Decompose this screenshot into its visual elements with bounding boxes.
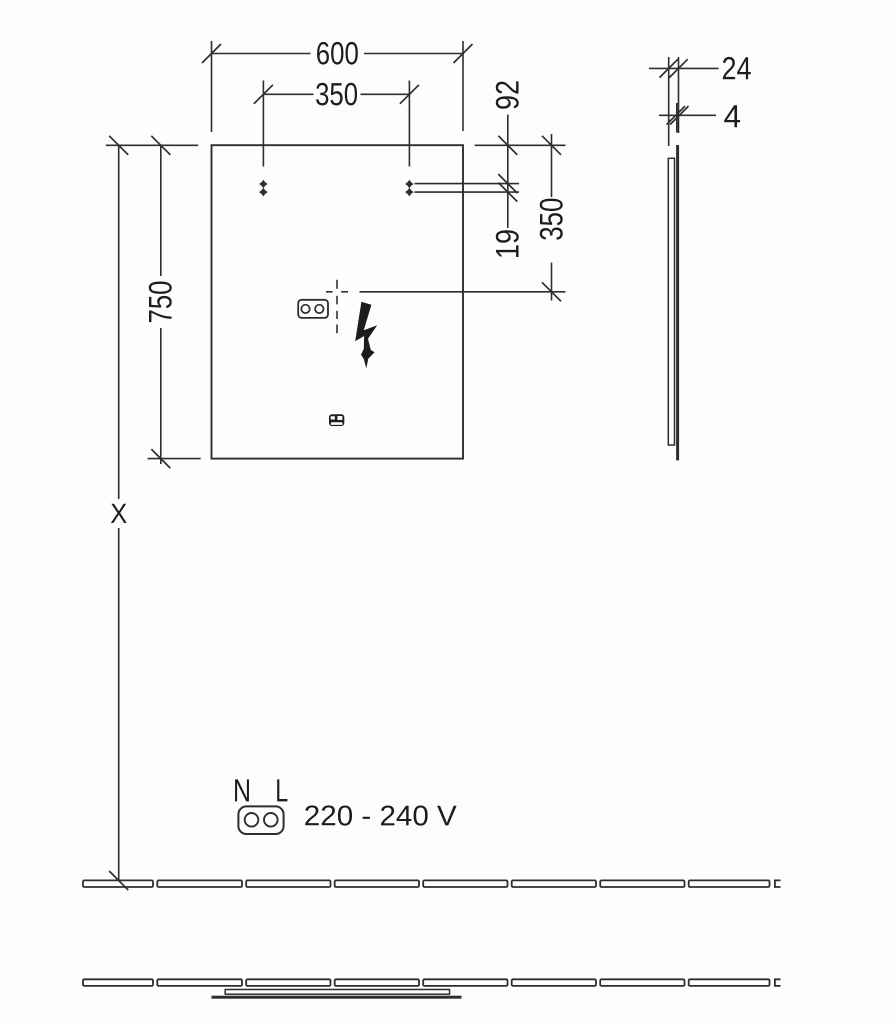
floor break line lower [83, 979, 781, 986]
fixing point right (double diamond) [405, 180, 414, 197]
socket symbol (mirror) [298, 300, 328, 318]
extension line top right [475, 144, 566, 146]
svg-text:4: 4 [723, 98, 741, 134]
extension line top left [106, 144, 199, 146]
dimension line 350 top [254, 81, 419, 167]
dimension line 350 right [542, 134, 561, 301]
centre cross dashed [326, 280, 348, 333]
svg-text:350: 350 [533, 198, 569, 241]
socket symbol (bottom) [238, 806, 283, 834]
dimension line 750 [151, 136, 170, 468]
dimension chain 92 / 19 [498, 115, 517, 229]
svg-text:220 - 240 V: 220 - 240 V [304, 800, 457, 832]
side view back panel [668, 158, 674, 445]
fixing point left (double diamond) [259, 180, 268, 197]
extension line bottom left [148, 458, 201, 460]
svg-text:92: 92 [490, 80, 526, 110]
svg-text:24: 24 [721, 50, 751, 86]
svg-text:350: 350 [315, 76, 358, 112]
floor break line upper [83, 880, 781, 887]
dimension line 24 [649, 59, 719, 77]
leader lines fixing holes [415, 184, 520, 193]
svg-text:19: 19 [490, 229, 526, 259]
side view mirror glass [676, 145, 679, 460]
svg-text:N: N [233, 772, 251, 808]
bottom view mirror glass [212, 996, 462, 999]
svg-text:L: L [275, 772, 288, 808]
svg-text:X: X [110, 498, 127, 529]
svg-text:600: 600 [316, 35, 359, 71]
dimension line 4 [659, 106, 716, 124]
dimension line 600 [202, 41, 473, 132]
dimension line X [109, 136, 128, 890]
bottom view back panel [225, 990, 449, 995]
leader line socket [360, 291, 566, 293]
lightning bolt arrow [355, 302, 377, 369]
svg-text:750: 750 [143, 281, 179, 324]
mirror outline (front view 600x750) [212, 145, 464, 458]
side view extension lines [669, 57, 679, 146]
sensor switch icon [329, 414, 344, 426]
